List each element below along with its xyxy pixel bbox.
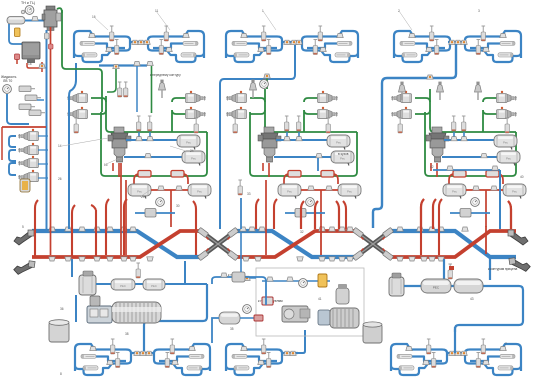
svg-text:к контурам прицепа: к контурам прицепа (488, 267, 517, 271)
svg-text:26: 26 (58, 177, 62, 181)
svg-text:к переднему контуру: к переднему контуру (150, 73, 181, 77)
svg-text:ЛВ 70: ЛВ 70 (3, 79, 12, 83)
svg-text:40: 40 (520, 175, 524, 179)
svg-text:в кузов: в кузов (338, 152, 349, 156)
svg-text:14: 14 (58, 144, 62, 148)
svg-text:33: 33 (247, 192, 251, 196)
svg-text:3: 3 (478, 9, 480, 13)
svg-text:36: 36 (60, 307, 64, 311)
svg-text:РЕС: РЕС (151, 284, 157, 288)
svg-text:РЕС: РЕС (433, 286, 440, 290)
svg-text:35: 35 (230, 327, 234, 331)
svg-text:8: 8 (60, 372, 62, 376)
svg-text:43: 43 (470, 297, 474, 301)
svg-text:32: 32 (300, 230, 304, 234)
svg-text:30: 30 (176, 204, 180, 208)
svg-text:РЕС: РЕС (120, 284, 126, 288)
svg-text:18: 18 (28, 62, 32, 66)
svg-text:24: 24 (190, 149, 194, 153)
svg-text:38: 38 (125, 332, 129, 336)
svg-text:42: 42 (430, 165, 434, 169)
svg-text:5: 5 (22, 225, 24, 229)
svg-text:ТН и ТЦ: ТН и ТЦ (21, 1, 35, 5)
svg-text:41: 41 (318, 297, 322, 301)
svg-text:7: 7 (505, 342, 507, 346)
